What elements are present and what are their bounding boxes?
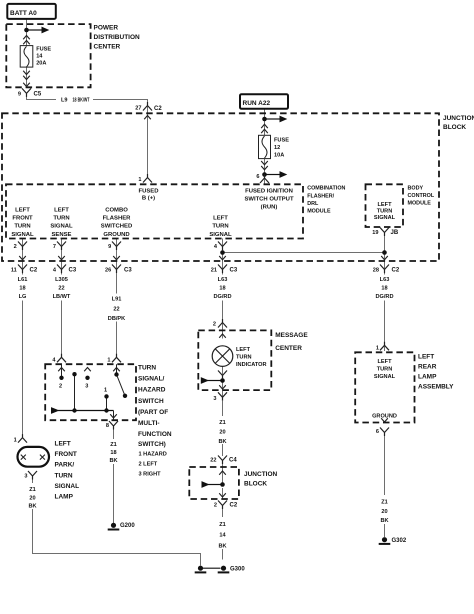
svg-text:C2: C2 xyxy=(154,106,162,112)
svg-text:C4: C4 xyxy=(229,458,237,464)
svg-text:TURN: TURN xyxy=(53,216,69,222)
svg-text:14: 14 xyxy=(36,54,43,60)
svg-text:10A: 10A xyxy=(274,153,284,159)
svg-text:L63: L63 xyxy=(218,277,228,283)
svg-text:2 LEFT: 2 LEFT xyxy=(139,462,158,468)
svg-text:MODULE: MODULE xyxy=(408,201,432,207)
svg-text:MODULE: MODULE xyxy=(307,209,331,215)
svg-text:26: 26 xyxy=(105,268,111,274)
svg-text:L91: L91 xyxy=(112,297,122,303)
svg-text:Z1: Z1 xyxy=(29,487,36,493)
svg-text:POWER: POWER xyxy=(94,25,119,32)
svg-text:9: 9 xyxy=(108,244,111,250)
svg-text:CENTER: CENTER xyxy=(275,345,302,352)
svg-text:TURN: TURN xyxy=(377,209,393,215)
svg-text:FUSED IGNITION: FUSED IGNITION xyxy=(245,189,293,195)
svg-text:FRONT: FRONT xyxy=(55,451,77,458)
svg-text:C3: C3 xyxy=(69,268,77,274)
svg-text:SIGNAL: SIGNAL xyxy=(11,232,34,238)
svg-text:L63: L63 xyxy=(380,277,390,283)
svg-text:6: 6 xyxy=(256,174,259,180)
svg-text:MULTI-: MULTI- xyxy=(138,420,160,427)
svg-text:LEFT: LEFT xyxy=(236,347,251,353)
svg-text:SIGNAL/: SIGNAL/ xyxy=(138,376,165,383)
svg-text:1 HAZARD: 1 HAZARD xyxy=(139,452,167,458)
svg-text:18: 18 xyxy=(110,450,116,456)
svg-text:20: 20 xyxy=(219,430,225,436)
svg-text:LAMP: LAMP xyxy=(418,374,437,381)
svg-text:TURN: TURN xyxy=(138,365,156,372)
svg-text:(PART OF: (PART OF xyxy=(138,409,168,416)
svg-text:FLASHER: FLASHER xyxy=(103,216,132,222)
svg-text:TURN: TURN xyxy=(14,224,30,230)
svg-text:G200: G200 xyxy=(120,523,135,529)
svg-text:3: 3 xyxy=(213,396,216,402)
svg-text:Z1: Z1 xyxy=(381,500,388,506)
svg-text:MESSAGE: MESSAGE xyxy=(275,332,308,339)
svg-text:FUSE: FUSE xyxy=(36,47,51,53)
svg-text:3 RIGHT: 3 RIGHT xyxy=(139,472,162,478)
svg-text:TURN: TURN xyxy=(55,472,73,479)
svg-text:BODY: BODY xyxy=(408,186,424,192)
svg-text:SWITCH): SWITCH) xyxy=(138,441,166,448)
svg-text:LEFT: LEFT xyxy=(55,441,71,448)
svg-text:BK: BK xyxy=(218,439,226,445)
svg-text:1: 1 xyxy=(104,388,107,394)
svg-text:LG: LG xyxy=(19,294,27,300)
svg-text:BK: BK xyxy=(218,544,226,550)
svg-text:2: 2 xyxy=(213,322,216,328)
svg-text:B (+): B (+) xyxy=(142,196,155,202)
svg-text:DRL: DRL xyxy=(307,201,319,207)
svg-text:1: 1 xyxy=(376,346,379,352)
svg-text:DG/RD: DG/RD xyxy=(213,294,231,300)
svg-text:PARK/: PARK/ xyxy=(55,462,75,469)
svg-text:G300: G300 xyxy=(230,567,245,573)
svg-text:SIGNAL: SIGNAL xyxy=(209,232,232,238)
svg-text:TURN: TURN xyxy=(236,354,252,360)
svg-text:BK: BK xyxy=(380,518,388,524)
svg-text:3: 3 xyxy=(24,474,27,480)
svg-text:11: 11 xyxy=(11,268,17,274)
svg-text:ASSEMBLY: ASSEMBLY xyxy=(418,384,454,391)
svg-text:27: 27 xyxy=(135,106,141,112)
svg-text:18: 18 xyxy=(381,286,387,292)
svg-text:LEFT: LEFT xyxy=(15,208,30,214)
svg-text:3: 3 xyxy=(85,384,88,390)
svg-text:19: 19 xyxy=(372,230,378,236)
svg-text:LEFT: LEFT xyxy=(378,202,393,208)
svg-text:L305: L305 xyxy=(55,277,68,283)
svg-text:Z1: Z1 xyxy=(219,420,226,426)
svg-text:FUSED: FUSED xyxy=(139,189,159,195)
svg-text:CONTROL: CONTROL xyxy=(408,193,435,199)
svg-text:20A: 20A xyxy=(36,61,46,67)
svg-text:LEFT: LEFT xyxy=(418,354,434,361)
svg-text:2: 2 xyxy=(14,244,17,250)
svg-text:JUNCTION: JUNCTION xyxy=(443,115,474,122)
svg-text:14: 14 xyxy=(219,533,226,539)
svg-text:12: 12 xyxy=(274,145,280,151)
svg-text:GROUND: GROUND xyxy=(103,232,129,238)
svg-text:SIGNAL: SIGNAL xyxy=(55,483,80,490)
svg-text:DG/RD: DG/RD xyxy=(375,294,393,300)
svg-text:22: 22 xyxy=(113,307,119,313)
svg-text:RUN A22: RUN A22 xyxy=(243,100,271,107)
svg-text:LEFT: LEFT xyxy=(213,216,228,222)
svg-text:18: 18 xyxy=(219,286,225,292)
svg-text:1: 1 xyxy=(138,177,141,183)
svg-text:21: 21 xyxy=(211,268,217,274)
svg-text:SWITCH: SWITCH xyxy=(138,398,164,405)
svg-text:Z1: Z1 xyxy=(219,522,226,528)
svg-text:L61: L61 xyxy=(18,277,28,283)
svg-text:SIGNAL: SIGNAL xyxy=(374,374,396,380)
svg-text:CENTER: CENTER xyxy=(94,44,121,51)
svg-text:SWITCH OUTPUT: SWITCH OUTPUT xyxy=(244,197,293,203)
svg-text:28: 28 xyxy=(373,268,379,274)
svg-text:FUNCTION: FUNCTION xyxy=(138,431,172,438)
svg-text:BLOCK: BLOCK xyxy=(443,124,466,131)
svg-text:20: 20 xyxy=(381,509,387,515)
svg-text:SENSE: SENSE xyxy=(52,232,72,238)
svg-text:BK: BK xyxy=(109,458,117,464)
svg-text:C3: C3 xyxy=(124,268,132,274)
svg-text:SIGNAL: SIGNAL xyxy=(374,215,396,221)
svg-text:22: 22 xyxy=(210,458,216,464)
svg-text:LEFT: LEFT xyxy=(378,359,393,365)
svg-text:C3: C3 xyxy=(230,268,238,274)
svg-text:G302: G302 xyxy=(392,538,407,544)
svg-text:8: 8 xyxy=(106,423,109,429)
svg-text:GROUND: GROUND xyxy=(372,414,397,420)
svg-text:(RUN): (RUN) xyxy=(261,205,278,211)
svg-text:TURN: TURN xyxy=(212,224,228,230)
svg-text:20: 20 xyxy=(29,495,35,501)
svg-text:C2: C2 xyxy=(230,503,238,509)
svg-text:LAMP: LAMP xyxy=(55,494,74,501)
svg-text:9: 9 xyxy=(18,92,21,98)
svg-text:Z1: Z1 xyxy=(110,442,117,448)
svg-text:BLOCK: BLOCK xyxy=(244,481,267,488)
svg-text:6: 6 xyxy=(376,429,379,435)
svg-text:C2: C2 xyxy=(392,268,400,274)
svg-text:18 BK/WT: 18 BK/WT xyxy=(73,97,90,103)
svg-text:FLASHER/: FLASHER/ xyxy=(307,193,334,199)
svg-text:BK: BK xyxy=(28,503,36,509)
svg-text:INDICATOR: INDICATOR xyxy=(236,362,267,368)
svg-text:HAZARD: HAZARD xyxy=(138,387,166,394)
svg-text:FRONT: FRONT xyxy=(12,216,33,222)
svg-text:L9: L9 xyxy=(61,97,68,103)
svg-text:LEFT: LEFT xyxy=(54,208,69,214)
svg-text:1: 1 xyxy=(107,358,110,364)
svg-text:DB/PK: DB/PK xyxy=(108,316,125,322)
svg-text:FUSE: FUSE xyxy=(274,138,289,144)
svg-text:2: 2 xyxy=(59,384,62,390)
svg-text:COMBO: COMBO xyxy=(105,208,128,214)
svg-text:22: 22 xyxy=(58,286,64,292)
svg-text:2: 2 xyxy=(214,503,217,509)
svg-text:JUNCTION: JUNCTION xyxy=(244,471,278,478)
svg-text:COMBINATION: COMBINATION xyxy=(307,186,345,192)
svg-text:SWITCHED: SWITCHED xyxy=(101,224,132,230)
svg-text:7: 7 xyxy=(53,244,56,250)
svg-text:C2: C2 xyxy=(30,268,38,274)
svg-text:LB/WT: LB/WT xyxy=(53,294,71,300)
svg-text:18: 18 xyxy=(19,286,25,292)
svg-text:DISTRIBUTION: DISTRIBUTION xyxy=(94,34,141,41)
svg-text:TURN: TURN xyxy=(377,367,393,373)
svg-text:REAR: REAR xyxy=(418,364,437,371)
svg-text:1: 1 xyxy=(14,438,17,444)
svg-text:C5: C5 xyxy=(34,92,42,98)
svg-text:SIGNAL: SIGNAL xyxy=(50,224,73,230)
svg-text:BATT A0: BATT A0 xyxy=(10,10,37,17)
svg-text:JB: JB xyxy=(391,230,399,236)
